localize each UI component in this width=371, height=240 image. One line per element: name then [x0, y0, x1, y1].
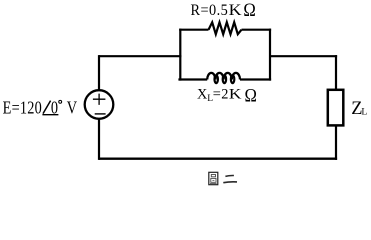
- node left edge of parallel network: [179, 29, 181, 81]
- wire bottom branch right lead: [240, 78, 271, 80]
- voltage source E circle: [85, 90, 114, 119]
- angle value 0: [51, 97, 58, 118]
- inductor L loop oval 3: [231, 75, 234, 83]
- svg-text:Ω: Ω: [243, 0, 255, 20]
- svg-text:L: L: [361, 106, 367, 117]
- inductor L coil humps: [207, 73, 240, 80]
- inductor L loop oval 1: [215, 75, 218, 83]
- wire top branch left lead: [179, 29, 208, 31]
- wire left vertical lower: [98, 119, 100, 160]
- angle symbol underline: [42, 114, 58, 116]
- caption glyph er (two) top stroke: [225, 174, 234, 177]
- svg-text:K: K: [229, 87, 242, 102]
- wire bottom branch left lead: [178, 78, 207, 80]
- caption glyph tu (figure) outer frame: [209, 172, 218, 184]
- degree symbol: [59, 100, 62, 103]
- label R=0.5K ohm: [191, 1, 242, 19]
- label XL=2K ohm: [197, 86, 242, 104]
- wire right vertical upper: [335, 55, 337, 89]
- svg-text:=2: =2: [213, 86, 229, 102]
- svg-text:E=120: E=120: [3, 97, 42, 118]
- inductor L loop oval 2: [223, 75, 226, 83]
- wire top-left horizontal: [99, 55, 181, 57]
- caption glyph er (two) bottom stroke: [223, 181, 237, 184]
- wire top-right horizontal: [270, 55, 337, 57]
- svg-text:0: 0: [51, 97, 58, 118]
- wire bottom horizontal: [99, 157, 337, 159]
- svg-text:K: K: [229, 1, 242, 19]
- wire top branch right lead: [242, 29, 272, 31]
- angle symbol diagonal: [43, 101, 51, 114]
- svg-text:R=0.5: R=0.5: [191, 3, 229, 20]
- node right edge of parallel network: [269, 29, 271, 81]
- wire right vertical lower: [335, 127, 337, 160]
- resistor R zigzag: [209, 22, 242, 34]
- voltage source plus sign: [93, 94, 106, 105]
- svg-text:V: V: [67, 97, 77, 118]
- wire left vertical upper: [98, 55, 100, 90]
- voltage source minus sign: [95, 113, 106, 115]
- load ZL box: [328, 90, 344, 126]
- svg-text:Ω: Ω: [245, 84, 257, 105]
- label E=120 angle 0 deg V: [3, 97, 78, 118]
